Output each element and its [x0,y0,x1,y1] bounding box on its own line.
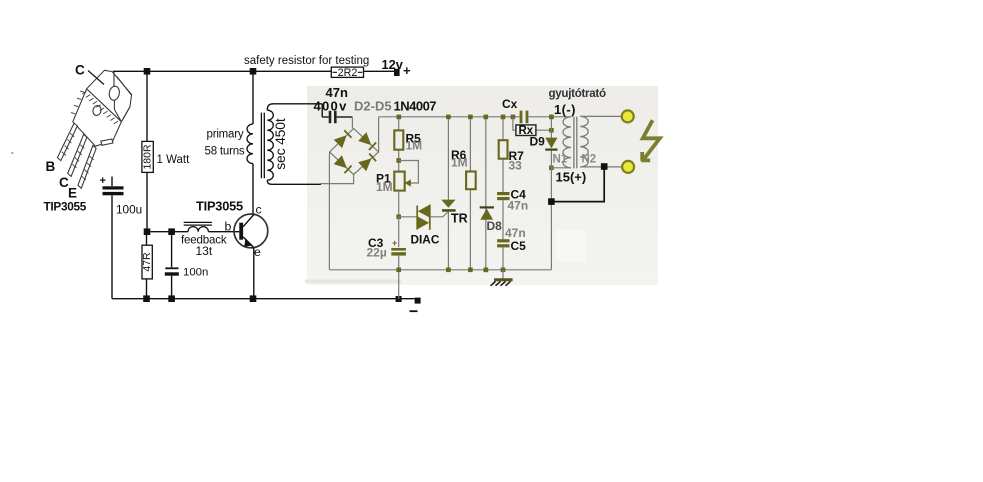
label C lead [59,175,69,190]
wire black link 15 to N2 [551,167,604,202]
svg-text:1M: 1M [451,155,468,169]
svg-text:e: e [254,245,261,259]
scanned background patch [305,86,658,285]
svg-text:gyujtótrató: gyujtótrató [549,87,606,100]
svg-text:C5: C5 [511,239,527,253]
svg-text:47n: 47n [508,199,529,213]
svg-text:c: c [256,203,262,217]
svg-text:C: C [75,63,85,78]
label TIP3055 package [44,200,87,214]
svg-text:primary: primary [207,129,244,141]
svg-text:2R2: 2R2 [338,67,358,79]
svg-text:33: 33 [509,159,523,173]
svg-text:1 Watt: 1 Watt [157,154,191,166]
potentiometer P1 [394,158,418,217]
transistor Q1 TIP3055 [234,214,268,248]
label gyujtotrato [549,87,606,100]
label feedback [181,234,227,247]
node black square N2 bottom [601,163,608,170]
capacitor C3 [391,238,406,299]
label C tab pointer [75,63,104,85]
node junction 100n top [168,228,175,235]
resistor R7 [499,115,508,192]
label 47n [326,85,348,100]
label C5 [511,239,527,253]
svg-text:+: + [392,238,397,248]
capacitor C5 [497,239,509,270]
resistor R5 [394,115,403,172]
capacitor 100n [165,235,179,299]
label TR [451,212,468,226]
node black square coil 15 [548,198,555,205]
label 100u [116,203,142,217]
label TIP3055 symbol [196,199,243,214]
label C3 [368,236,384,250]
node 12v terminal [394,69,400,76]
svg-text:100u: 100u [116,203,142,217]
transformer core [261,113,264,179]
label 47n C5 [505,226,526,240]
label B lead [46,159,56,174]
capacitor C4 [497,192,509,239]
capacitor Cx [511,111,529,124]
capacitor 100u [100,175,124,232]
transistor package leads [57,123,96,188]
diode D9 [545,115,557,270]
node junction top rail mid [250,68,257,75]
bridge rectifier D2-D5 [321,117,379,270]
svg-text:22µ: 22µ [367,246,387,260]
label 47n C4 [508,199,529,213]
label DIAC [411,233,440,247]
wire sub bottom rail [329,269,551,271]
node junction top rail left [144,68,151,75]
svg-text:400v: 400v [314,99,348,114]
svg-text:13t: 13t [196,244,213,258]
label 33 [509,159,523,173]
node N1 bottom junction [549,166,554,171]
label primary [207,129,244,141]
capacitor 47n 400v [322,111,352,123]
node junction feedback left [144,228,151,235]
wire emitter down [253,248,255,299]
resistor 2R2 [331,67,363,79]
label 1M R5 [406,139,423,153]
svg-text:b: b [225,220,232,234]
wire top rail [113,70,395,72]
node junction bottom 47R [143,295,150,302]
label 1(-) [554,102,576,117]
svg-text:100n: 100n [183,267,208,279]
label R6 [451,148,467,162]
svg-text:12v: 12v [382,57,404,72]
label safety resistor for testing [244,55,369,67]
label R7 [509,149,525,163]
label 100n [183,267,208,279]
svg-text:1M: 1M [376,180,393,194]
svg-text:D9: D9 [530,135,546,149]
svg-text:+: + [100,175,106,187]
node minus terminal [410,298,421,312]
label N2 [582,154,597,166]
svg-text:Cx: Cx [502,97,518,111]
wire bottom rail [112,298,415,300]
DIAC [417,205,430,230]
wire 180R column [146,71,148,231]
wire collector column [252,164,254,215]
ignition coil secondary N2 [580,116,622,167]
label 15(+) [556,170,587,185]
wire base [208,231,239,233]
label sec 450t [272,118,288,170]
label R5 [406,132,422,146]
transformer primary winding [247,124,253,164]
svg-text:47R: 47R [141,252,153,272]
svg-text:sec 450t: sec 450t [272,118,288,170]
label Cx [502,97,518,111]
ignition coil primary N1 [551,117,571,168]
label c [256,203,262,217]
transistor package TIP3055 TO-218 [71,70,132,146]
svg-text:safety resistor for testing: safety resistor for testing [244,55,369,67]
svg-text:180R: 180R [142,144,154,170]
wire sub top rail [379,116,571,118]
spark gap terminal bottom [622,161,634,173]
svg-text:TIP3055: TIP3055 [44,200,87,214]
node junction bottom C3 column [396,296,402,302]
label 400v [314,99,348,114]
ground [484,268,513,286]
svg-text:N1: N1 [553,154,568,166]
triac TR [441,115,455,273]
label 1M P1 [376,180,393,194]
wire left rail down [111,232,113,299]
resistor 47R [141,235,153,299]
label E lead [68,186,77,201]
label D9 [530,135,546,149]
label D2-D5 [354,99,392,114]
svg-text:B: B [46,159,56,174]
svg-text:D2-D5: D2-D5 [354,99,392,114]
svg-text:1M: 1M [406,139,423,153]
wire feedback row [150,231,188,233]
spark gap terminal top [622,110,634,122]
svg-text:+: + [403,63,411,78]
spark lightning bolt [641,120,660,161]
label 1N4007 [394,99,437,114]
resistor 180R [142,141,154,172]
label 58 turns [205,146,245,158]
node junction bottom 100n [168,295,175,302]
resistor R6 [466,115,476,273]
svg-text:1N4007: 1N4007 [394,99,437,114]
svg-text:D8: D8 [487,219,503,233]
label 1M R6 [451,155,468,169]
label P1 [376,172,391,186]
svg-text:47n: 47n [505,226,526,240]
label 1 Watt [157,154,191,166]
svg-text:DIAC: DIAC [411,233,440,247]
svg-text:58 turns: 58 turns [205,146,245,158]
label 13t [196,244,213,258]
resistor Rx [513,117,552,137]
label e [254,245,261,259]
svg-text:1(-): 1(-) [554,102,576,117]
label 12v [382,57,404,72]
transformer secondary winding [267,104,322,185]
label D8 [487,219,503,233]
svg-text:15(+): 15(+) [556,170,587,185]
svg-text:TR: TR [451,212,468,226]
inductor feedback 13t [184,222,212,231]
label C4 [511,188,527,202]
svg-text:E: E [68,186,77,201]
node Rx-D9 junction [549,128,554,133]
wire DIAC row [396,212,448,248]
node junction bottom emitter [250,295,257,302]
label b [225,220,232,234]
wire primary column [252,75,254,124]
diode D8 [480,115,494,273]
svg-text:TIP3055: TIP3055 [196,199,243,214]
ignition coil core [574,117,577,169]
svg-text:N2: N2 [582,154,597,166]
label 22u [367,246,387,260]
speck artifact [11,152,14,154]
label N1 [553,154,568,166]
label + supply [403,63,411,78]
